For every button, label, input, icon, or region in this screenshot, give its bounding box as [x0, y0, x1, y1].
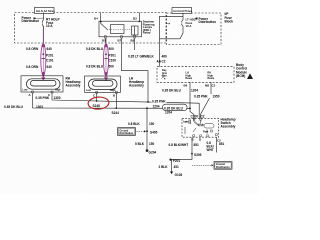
svg-text:0.35 PNK: 0.35 PNK [36, 96, 50, 100]
svg-text:NB: NB [205, 84, 209, 88]
svg-text:1204: 1204 [191, 89, 198, 93]
svg-text:0.8 ORN: 0.8 ORN [26, 47, 39, 51]
svg-text:1950: 1950 [213, 94, 220, 98]
svg-text:P201: P201 [173, 159, 181, 163]
svg-text:G204: G204 [149, 151, 157, 155]
svg-text:0.35 LT GRN/BLK: 0.35 LT GRN/BLK [128, 54, 154, 58]
svg-text:Low: Low [23, 89, 28, 92]
svg-text:G103: G103 [175, 173, 183, 177]
svg-text:1204: 1204 [165, 110, 172, 114]
svg-text:C2: C2 [162, 60, 166, 64]
svg-text:851: 851 [194, 143, 199, 147]
svg-text:Distribution: Distribution [120, 132, 134, 135]
svg-text:B: B [113, 93, 115, 97]
svg-text:500: 500 [109, 64, 114, 68]
svg-text:0.8 DK BLU: 0.8 DK BLU [86, 47, 104, 51]
svg-text:10 A: 10 A [46, 24, 53, 28]
svg-text:Block: Block [225, 20, 234, 24]
svg-text:851: 851 [219, 142, 224, 146]
svg-text:Relay: Relay [143, 31, 151, 35]
svg-text:B8: B8 [131, 39, 135, 43]
svg-text:S244: S244 [112, 111, 120, 115]
svg-text:Assembly: Assembly [129, 83, 144, 87]
svg-text:Distribution: Distribution [216, 166, 230, 169]
svg-text:451: 451 [174, 165, 179, 169]
svg-text:High: High [55, 89, 61, 92]
svg-text:C100: C100 [109, 59, 117, 63]
svg-text:460: 460 [162, 54, 167, 58]
svg-text:640: 640 [47, 47, 52, 51]
svg-text:1204: 1204 [153, 104, 160, 108]
svg-text:0.8 BLK: 0.8 BLK [128, 122, 140, 126]
svg-text:2 BLK: 2 BLK [159, 165, 169, 169]
svg-text:S305: S305 [194, 153, 202, 157]
svg-text:Low: Low [86, 89, 91, 92]
svg-text:B: B [192, 137, 194, 141]
svg-text:Distribution: Distribution [199, 20, 217, 24]
svg-text:C101: C101 [46, 59, 54, 63]
svg-text:0.35 PNK: 0.35 PNK [194, 94, 208, 98]
svg-text:0.35 PNK: 0.35 PNK [152, 100, 166, 104]
svg-text:Low: Low [184, 120, 189, 123]
svg-text:C2: C2 [212, 84, 216, 88]
svg-text:B7: B7 [118, 39, 122, 43]
svg-text:D: D [199, 137, 201, 141]
svg-text:B6: B6 [184, 83, 188, 87]
svg-text:WHT: WHT [207, 148, 214, 152]
svg-text:P201: P201 [109, 54, 117, 58]
svg-text:High: High [199, 123, 205, 126]
svg-text:Assembly: Assembly [221, 125, 236, 129]
svg-text:Distribution: Distribution [22, 19, 40, 23]
svg-text:640: 640 [47, 65, 52, 69]
svg-text:S405: S405 [150, 131, 158, 135]
svg-text:150: 150 [149, 142, 154, 146]
svg-text:C2: C2 [201, 114, 205, 118]
svg-text:Beam: Beam [186, 77, 193, 80]
svg-text:Hot At All Times: Hot At All Times [174, 10, 193, 13]
svg-text:5 BLK: 5 BLK [135, 142, 145, 146]
svg-text:1303: 1303 [36, 105, 43, 109]
svg-text:Hot At All Times: Hot At All Times [36, 10, 55, 13]
svg-text:Park: Park [203, 130, 209, 133]
svg-text:1300: 1300 [54, 96, 61, 100]
svg-text:10 A: 10 A [186, 24, 193, 28]
svg-text:Beam: Beam [208, 77, 215, 80]
svg-text:B3: B3 [133, 17, 137, 21]
svg-text:0.8 BLK/WHT: 0.8 BLK/WHT [169, 143, 189, 147]
svg-text:150: 150 [149, 122, 154, 126]
svg-text:C100: C100 [191, 114, 199, 118]
svg-text:0.35 DK BLU: 0.35 DK BLU [4, 105, 24, 109]
svg-text:0.8 DK BLU: 0.8 DK BLU [86, 64, 104, 68]
svg-text:Run: Run [162, 75, 167, 78]
svg-text:0.8 ORN: 0.8 ORN [26, 65, 39, 69]
svg-text:Assembly: Assembly [66, 83, 81, 87]
svg-text:B4: B4 [94, 17, 98, 21]
svg-text:High: High [110, 89, 116, 92]
svg-text:P201: P201 [46, 54, 54, 58]
svg-text:B5: B5 [102, 39, 106, 43]
svg-text:(BCM): (BCM) [236, 74, 245, 78]
svg-text:500: 500 [109, 47, 114, 51]
svg-text:0.35 DK BLU: 0.35 DK BLU [162, 89, 182, 93]
svg-text:S248: S248 [93, 104, 101, 108]
